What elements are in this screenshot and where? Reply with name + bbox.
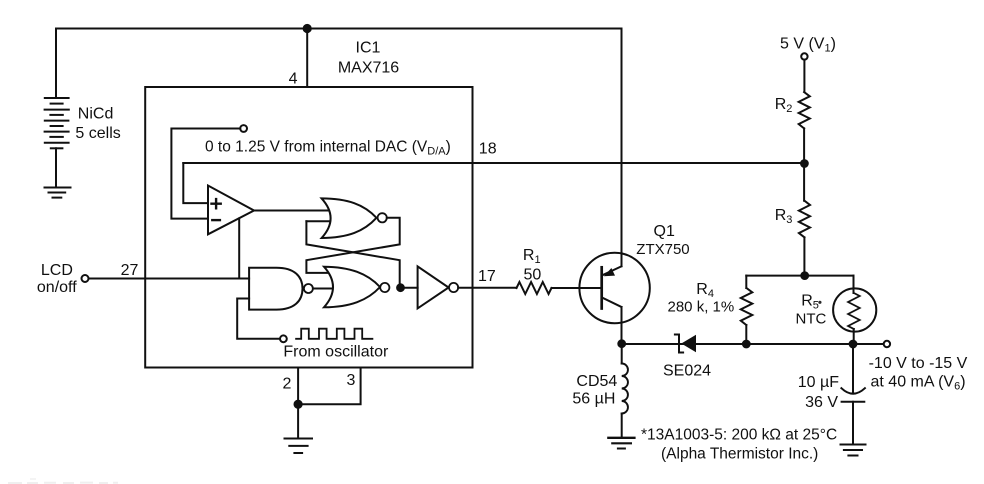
wire 5V terminal to R2: [803, 60, 805, 92]
label R5 asterisk dot: [818, 301, 821, 304]
wire op-amp output to NOR1 top input: [254, 210, 328, 212]
svg-text:17: 17: [478, 268, 496, 285]
node pin-4 junction on top rail: [304, 25, 311, 32]
node collector junction: [618, 340, 625, 347]
svg-text:IC1: IC1: [356, 40, 381, 57]
svg-text:18: 18: [479, 140, 497, 157]
wire pin 18 line (box to R2/R3 divider): [183, 162, 804, 164]
wire pin 27 line to NAND top input: [89, 278, 250, 280]
wire cap top lead: [852, 344, 854, 393]
ground (battery): [45, 188, 71, 198]
wire main negative output rail (collector node to output terminal): [622, 343, 884, 345]
svg-text:4: 4: [289, 71, 298, 88]
svg-text:27: 27: [121, 262, 139, 279]
wire R4 bottom lead: [745, 325, 747, 344]
wire R5 top lead: [853, 276, 855, 293]
wire battery positive lead: [55, 29, 57, 97]
resistor R4 280k 1%: [741, 288, 753, 325]
svg-text:0 to 1.25 V from internal DAC: 0 to 1.25 V from internal DAC (VD/A): [205, 139, 451, 158]
svg-text:R2: R2: [775, 96, 793, 115]
NAND gate: [249, 268, 313, 310]
svg-text:280 k, 1%: 280 k, 1%: [668, 299, 735, 316]
wire collector node to inductor: [621, 344, 623, 364]
ground (IC pins 2,3): [285, 439, 313, 454]
NOR gate N1 (top of latch): [322, 198, 387, 238]
wire NAND output to NOR2: [313, 288, 332, 290]
wire pin 2 drop: [297, 368, 299, 405]
wire R4/R5 top rail: [746, 275, 853, 277]
svg-text:36 V: 36 V: [805, 394, 838, 411]
svg-text:10 µF: 10 µF: [798, 374, 839, 391]
wire DAC terminal to op-amp - input: [171, 129, 240, 219]
wire R5 bottom lead: [853, 329, 855, 344]
wire op-amp lower node to pin-27 line: [238, 218, 240, 278]
svg-text:NiCd: NiCd: [78, 106, 114, 123]
wire top rail from battery to Q1 emitter riser: [56, 28, 622, 30]
terminal 5V input: [801, 53, 807, 59]
inverter buffer: [418, 266, 459, 308]
node latch output junction: [397, 284, 404, 291]
wire cap bottom lead: [852, 402, 854, 444]
battery BT1 NiCd 5 cells: [45, 98, 69, 148]
diode D1 SE024 (Schottky, cathode left): [675, 335, 696, 353]
resistor R2: [799, 92, 810, 128]
ground (capacitor): [841, 445, 866, 456]
svg-text:SE024: SE024: [663, 363, 711, 380]
wire pin 4 drop into IC box: [306, 29, 308, 88]
wire pin 3 drop and link: [298, 368, 361, 405]
svg-text:5 V (V1): 5 V (V1): [780, 36, 836, 55]
wire NOR1 bottom input stub: [306, 220, 329, 222]
svg-text:NTC: NTC: [796, 311, 827, 328]
ground (inductor): [608, 438, 634, 449]
wire battery negative lead: [55, 148, 57, 187]
wire pin 17 line to R1: [458, 287, 516, 289]
terminal LCD on/off pin 27: [82, 275, 89, 282]
wire pin2/3 node to ground: [297, 404, 299, 438]
node pin-18 divider junction: [801, 160, 808, 167]
svg-text:R5: R5: [801, 292, 819, 311]
svg-text:56 µH: 56 µH: [572, 390, 615, 407]
thermistor R5 NTC: [833, 288, 876, 331]
svg-text:3: 3: [347, 372, 356, 389]
svg-text:ZTX750: ZTX750: [636, 241, 689, 258]
wire latch cross-coupling: NOR1 output down to NOR2 top input: [306, 218, 399, 273]
wire R2 to R3: [803, 128, 805, 200]
svg-text:MAX716: MAX716: [338, 60, 399, 77]
transistor Q1 ZTX750 (PNP): [579, 253, 649, 323]
wire R1 to Q1 base: [552, 287, 601, 289]
wire emitter riser (top rail down to Q1): [621, 29, 623, 267]
wire latch cross-coupling: NOR2 output node up to NOR1 bottom input: [306, 221, 399, 288]
terminal from-oscillator: [280, 335, 287, 342]
resistor R1 50 ohm: [517, 282, 552, 294]
svg-text:50: 50: [524, 266, 542, 283]
oscillator square-wave symbol: [296, 329, 372, 339]
svg-text:at 40 mA (V6): at 40 mA (V6): [871, 374, 966, 393]
node R3/R4/R5 junction: [801, 272, 808, 279]
IC1 MAX716 box: [145, 87, 472, 368]
node pin2/3 junction: [295, 401, 302, 408]
svg-text:-10 V to -15 V: -10 V to -15 V: [869, 355, 968, 372]
svg-text:2: 2: [283, 375, 292, 392]
NOR gate N2 (bottom of latch): [324, 267, 389, 308]
terminal DAC output (0 to 1.25V): [240, 125, 247, 132]
wire R4 top lead: [745, 276, 747, 288]
svg-text:R4: R4: [696, 281, 714, 300]
terminal -10V output: [884, 341, 890, 347]
wire inductor to ground: [621, 414, 623, 438]
wire op-amp + input from pin-18 line: [183, 163, 208, 203]
wire Q1 collector to node: [621, 307, 623, 344]
node R5/cap junction: [850, 341, 857, 348]
svg-text:CD54: CD54: [576, 373, 617, 390]
svg-text:(Alpha Thermistor Inc.): (Alpha Thermistor Inc.): [661, 446, 818, 463]
inductor L1 CD54 56uH: [622, 364, 628, 414]
svg-text:Q1: Q1: [654, 223, 675, 240]
resistor R3: [799, 201, 810, 238]
svg-text:LCD: LCD: [41, 262, 73, 279]
capacitor C1 10uF 36V (polarized): [841, 388, 865, 402]
wire R3 bottom to divider node: [803, 237, 805, 275]
svg-text:*13A1003-5: 200 kΩ at 25°C: *13A1003-5: 200 kΩ at 25°C: [641, 427, 837, 444]
svg-text:R1: R1: [523, 247, 541, 266]
svg-text:From oscillator: From oscillator: [283, 344, 389, 361]
node R4 bottom junction: [743, 341, 750, 348]
svg-text:R3: R3: [775, 207, 793, 226]
wire latch output to inverter: [401, 287, 418, 289]
svg-text:5 cells: 5 cells: [75, 125, 120, 142]
svg-text:on/off: on/off: [37, 279, 77, 296]
wire NAND bottom input from oscillator terminal: [237, 299, 280, 339]
op-amp comparator U1a: [208, 186, 254, 235]
